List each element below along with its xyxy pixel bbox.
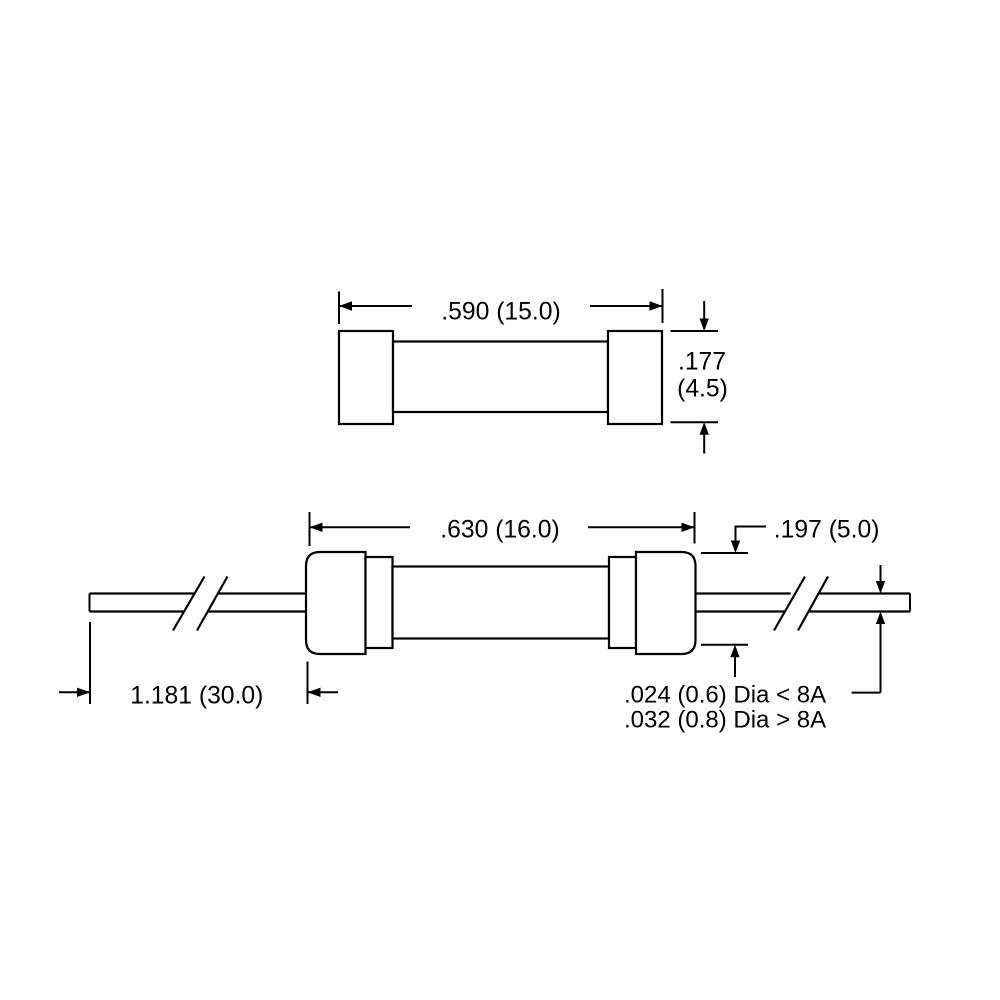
dimension .590 (15.0): left extension line bbox=[338, 292, 340, 325]
bottom view: body tube bbox=[393, 567, 610, 639]
right lead bottom line (broken) bbox=[696, 610, 785, 612]
top view: left end cap bbox=[339, 331, 393, 424]
dimension .177 (4.5): down arrow bbox=[703, 301, 705, 329]
svg-text:.177: .177 bbox=[678, 348, 726, 375]
lead diameter dimension: down arrow above lead bbox=[880, 565, 882, 592]
left break mark slash 1 bbox=[173, 577, 205, 631]
dimension .630 (16.0): right extension line bbox=[694, 512, 696, 544]
dimension .197 (5.0): leader line bbox=[736, 527, 767, 530]
dimension .177 (4.5): up arrow bbox=[703, 424, 705, 453]
lead diameter dimension: up arrow below lead with leader bbox=[880, 614, 882, 693]
dimension .197 (5.0): top extension line (cap top) bbox=[701, 552, 748, 554]
bottom view: right ferrule ring bbox=[609, 557, 636, 648]
left lead top line (broken) bbox=[90, 592, 195, 594]
right lead top line (broken) bbox=[696, 592, 791, 594]
dimension .197 (5.0): up arrow bbox=[734, 647, 736, 677]
svg-text:.197 (5.0): .197 (5.0) bbox=[774, 517, 880, 544]
bottom view: left ferrule ring bbox=[366, 557, 393, 648]
svg-text:(4.5): (4.5) bbox=[677, 376, 728, 403]
dimension .630 (16.0): right dimension line with arrowhead bbox=[588, 526, 694, 528]
right lead end cap line bbox=[909, 594, 911, 612]
left lead end cap line bbox=[89, 594, 91, 612]
dimension .590 (15.0): right dimension line with arrowhead bbox=[590, 305, 662, 307]
svg-text:1.181 (30.0): 1.181 (30.0) bbox=[130, 683, 263, 710]
dimension .177 (4.5): bottom extension line bbox=[671, 421, 719, 423]
top view: right end cap bbox=[608, 331, 662, 424]
dimension .590 (15.0): left dimension line with arrowhead bbox=[340, 305, 412, 307]
right break mark slash 1 bbox=[774, 577, 805, 631]
bottom view: left outer cap (rounded) bbox=[306, 552, 366, 654]
svg-text:.630 (16.0): .630 (16.0) bbox=[440, 517, 559, 544]
right break mark slash 2 bbox=[798, 577, 828, 631]
svg-text:.024 (0.6) Dia < 8A: .024 (0.6) Dia < 8A bbox=[624, 682, 826, 709]
dimension .630 (16.0): left extension line bbox=[309, 512, 311, 546]
dimension 1.181 (30.0): left extension line bbox=[89, 622, 91, 704]
lead diameter dimension: horizontal leader to text bbox=[852, 692, 881, 694]
svg-text:.590 (15.0): .590 (15.0) bbox=[441, 299, 560, 326]
dimension 1.181 (30.0): right arrow (pointing left) bbox=[309, 691, 339, 693]
dimension 1.181 (30.0): left arrow (pointing right) bbox=[59, 691, 89, 693]
dimension .197 (5.0): bottom extension line (cap bottom) bbox=[701, 644, 748, 646]
dimension 1.181 (30.0): right extension line bbox=[307, 662, 309, 705]
dimension .177 (4.5): top extension line bbox=[671, 330, 719, 332]
left break mark slash 2 bbox=[197, 577, 228, 631]
dimension .630 (16.0): left dimension line with arrowhead bbox=[311, 526, 411, 528]
top view: glass body tube bbox=[393, 342, 608, 413]
left lead bottom line (broken) bbox=[90, 610, 185, 612]
svg-text:.032 (0.8) Dia > 8A: .032 (0.8) Dia > 8A bbox=[624, 707, 826, 734]
dimension .590 (15.0): right extension line bbox=[662, 289, 664, 323]
bottom view: right outer cap (rounded) bbox=[636, 552, 696, 654]
